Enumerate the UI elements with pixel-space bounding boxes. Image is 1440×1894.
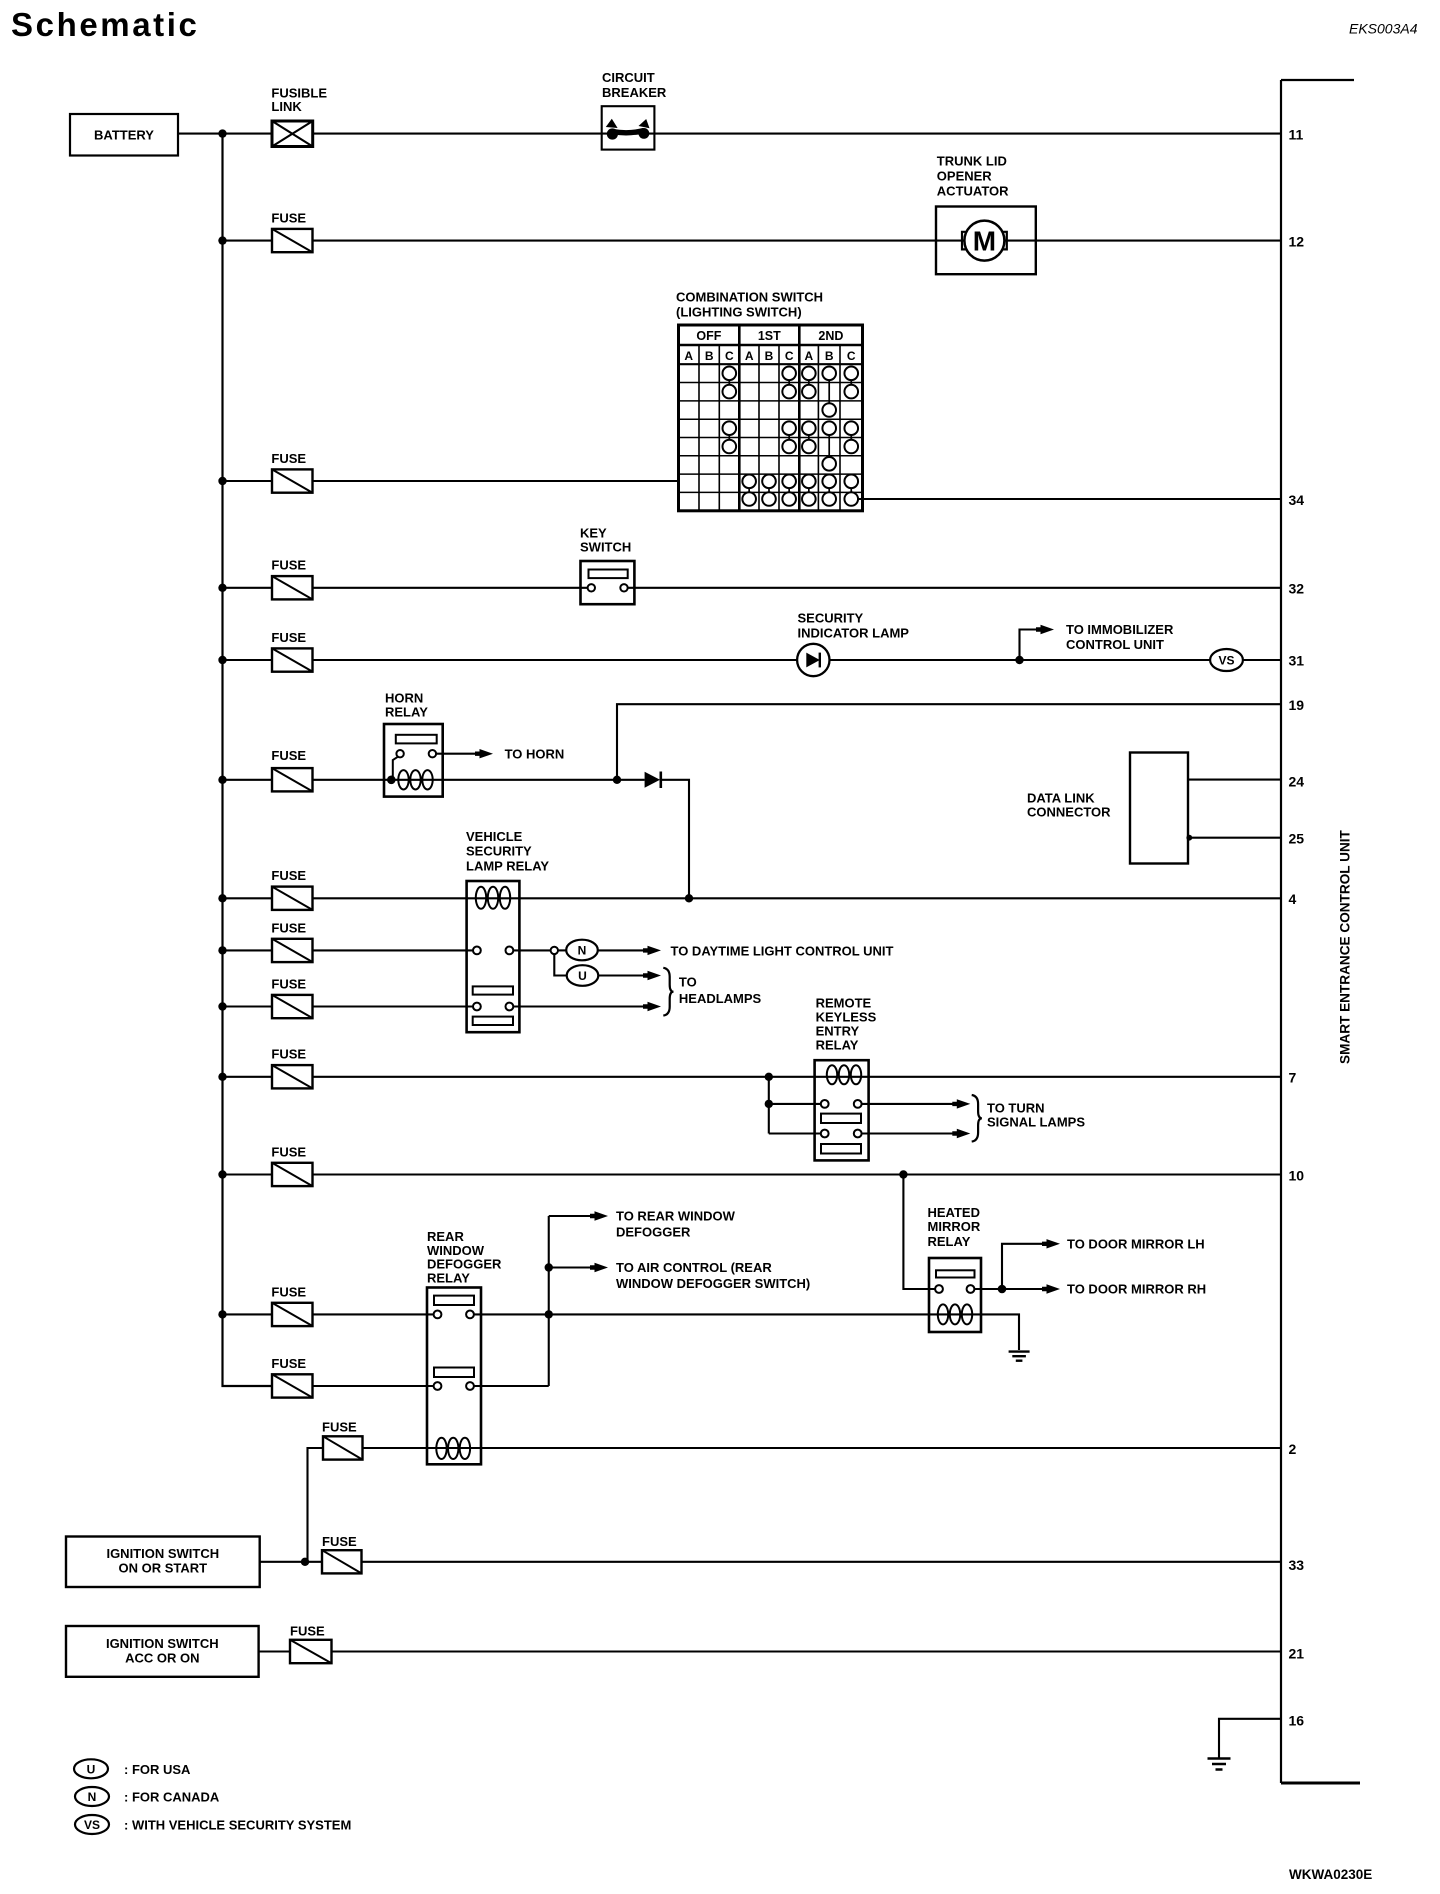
svg-text:FUSE: FUSE [271, 1356, 306, 1371]
table contact circles [723, 367, 737, 381]
table header separator 1 [679, 344, 863, 347]
junction door mirror split [998, 1285, 1007, 1294]
svg-text:DEFOGGER: DEFOGGER [427, 1257, 502, 1272]
wire corner to rear window defogger arrow [549, 1215, 595, 1217]
svg-text:EKS003A4: EKS003A4 [1349, 21, 1418, 37]
svg-text:TO HORN: TO HORN [505, 746, 565, 761]
wire battery row to pin 11 [223, 133, 1282, 135]
fuse F5 [272, 768, 313, 791]
wire VSL contact row 2 to arrow [513, 1005, 647, 1007]
N option ellipse [566, 940, 598, 961]
wire fuse row to RWD relay contact row 1 [223, 1313, 434, 1315]
fuse F8 [272, 995, 313, 1018]
wire to RKE contact row 1 [769, 1103, 821, 1105]
svg-text:ENTRY: ENTRY [816, 1024, 860, 1039]
svg-text:SIGNAL LAMPS: SIGNAL LAMPS [987, 1115, 1085, 1130]
svg-text:CONNECTOR: CONNECTOR [1027, 805, 1111, 820]
svg-text:TO: TO [679, 975, 697, 990]
svg-text:RELAY: RELAY [385, 705, 428, 720]
wire to door mirror LH arrow [1002, 1244, 1046, 1289]
wire diode to vertical drop [661, 780, 689, 899]
wire fuse row through VSL relay coil to pin 4 [223, 897, 1282, 899]
wire N to arrow [598, 949, 648, 951]
svg-text:CONTROL UNIT: CONTROL UNIT [1066, 637, 1164, 652]
svg-text:11: 11 [1289, 127, 1304, 143]
legend U ellipse [74, 1759, 108, 1778]
arrow to daytime light control unit [643, 946, 661, 955]
svg-text:HEADLAMPS: HEADLAMPS [679, 991, 762, 1006]
combination switch table outer border [679, 325, 863, 511]
svg-text:FUSE: FUSE [271, 558, 306, 573]
table header separator 2 [679, 363, 863, 365]
svg-text:BATTERY: BATTERY [94, 127, 154, 142]
svg-text:C: C [785, 349, 794, 363]
VSL relay coil [476, 887, 486, 909]
svg-text:IGNITION SWITCH: IGNITION SWITCH [106, 1546, 219, 1561]
table row lines [679, 382, 863, 384]
svg-text:19: 19 [1289, 697, 1305, 713]
RWD relay top slot [434, 1296, 474, 1305]
svg-text:1ST: 1ST [758, 329, 781, 343]
wire RWD contact row1 through HM coil to ground [474, 1314, 1019, 1350]
RKE relay slot 2 [821, 1144, 861, 1154]
wire ignition branch to fuse F13 [308, 1448, 324, 1562]
turn signal brace [972, 1095, 982, 1142]
svg-text:OPENER: OPENER [937, 169, 993, 184]
svg-text:FUSE: FUSE [271, 451, 306, 466]
svg-text:25: 25 [1289, 831, 1305, 847]
svg-text:BREAKER: BREAKER [602, 85, 667, 100]
svg-text:: FOR USA: : FOR USA [124, 1762, 191, 1777]
wire data link to pin 24 [1188, 779, 1281, 781]
svg-text:COMBINATION SWITCH: COMBINATION SWITCH [676, 290, 823, 305]
smart entrance control unit bus (right vertical line) [1280, 80, 1282, 1783]
wire key switch to pin 32 [628, 587, 1281, 589]
RWD relay box [427, 1288, 481, 1465]
svg-text:ON OR START: ON OR START [119, 1561, 208, 1576]
svg-text:TO DAYTIME LIGHT CONTROL UNIT: TO DAYTIME LIGHT CONTROL UNIT [671, 944, 894, 959]
key switch slot [589, 570, 628, 579]
key switch box [581, 561, 635, 604]
svg-text:33: 33 [1289, 1557, 1305, 1573]
svg-text:10: 10 [1289, 1168, 1305, 1184]
svg-text:C: C [847, 349, 856, 363]
svg-text:2: 2 [1289, 1441, 1297, 1457]
svg-text:U: U [578, 969, 587, 983]
svg-text:RELAY: RELAY [928, 1234, 971, 1249]
junction air control branch [545, 1263, 553, 1271]
svg-text:: FOR CANADA: : FOR CANADA [124, 1790, 220, 1805]
fusible link symbol [272, 121, 313, 147]
junction RKE branch [765, 1073, 773, 1081]
wire branch to immobilizer [1020, 630, 1041, 661]
RWD relay coil [436, 1438, 446, 1459]
svg-text:31: 31 [1289, 653, 1305, 669]
RKE relay contacts row 1 [821, 1100, 829, 1108]
fuse F7 [272, 939, 313, 962]
wire data link to pin 25 [1188, 837, 1281, 839]
svg-text:32: 32 [1289, 581, 1305, 597]
wire fuse row to VSL relay contact row 2 [223, 1005, 474, 1007]
svg-text:N: N [88, 1790, 97, 1804]
fuse F3 [272, 576, 313, 599]
circuit breaker box [602, 106, 655, 149]
svg-text:WINDOW DEFOGGER SWITCH): WINDOW DEFOGGER SWITCH) [616, 1276, 810, 1291]
junction at diode [613, 776, 621, 784]
wire heated mirror branch vertical [903, 1175, 935, 1290]
legend VS ellipse [75, 1815, 109, 1834]
svg-text:16: 16 [1289, 1713, 1305, 1729]
svg-text:FUSE: FUSE [271, 630, 306, 645]
wire HM contact to junction [974, 1288, 1002, 1290]
svg-text:RELAY: RELAY [816, 1038, 859, 1053]
svg-text:LAMP RELAY: LAMP RELAY [466, 859, 549, 874]
diode [645, 772, 660, 788]
svg-text:KEYLESS: KEYLESS [816, 1010, 877, 1025]
unit top edge [1281, 79, 1354, 81]
RWD relay contacts row 2 [434, 1382, 442, 1390]
svg-text:TO AIR CONTROL (REAR: TO AIR CONTROL (REAR [616, 1260, 772, 1275]
table group separator lines [738, 325, 741, 511]
svg-text:2ND: 2ND [818, 329, 843, 343]
horn relay coil [398, 770, 408, 789]
svg-text:C: C [725, 349, 734, 363]
svg-text:U: U [87, 1762, 96, 1776]
svg-text:M: M [973, 226, 996, 257]
wire horn relay branch to pin 19 [617, 704, 1281, 780]
battery box [70, 114, 178, 156]
wire fuse row to RWD relay contact row 2 [223, 1385, 434, 1387]
combination switch output wire to pin 34 [858, 498, 1281, 500]
table column lines [698, 345, 700, 511]
svg-text:VS: VS [84, 1818, 100, 1832]
junction [218, 776, 226, 784]
wire fuse row through horn relay to diode [223, 779, 645, 781]
VSL relay middle slot [473, 986, 513, 994]
motor M symbol [962, 232, 967, 250]
fuse F13 [323, 1436, 363, 1459]
horn relay contacts [396, 750, 403, 757]
svg-text:ACC OR ON: ACC OR ON [125, 1651, 199, 1666]
svg-text:REMOTE: REMOTE [816, 996, 872, 1011]
junction to immobilizer branch [1015, 656, 1023, 664]
svg-text:LINK: LINK [271, 99, 302, 114]
svg-text:A: A [745, 349, 754, 363]
svg-text:HEATED: HEATED [928, 1205, 980, 1220]
svg-text:TO REAR WINDOW: TO REAR WINDOW [616, 1209, 736, 1224]
svg-text:21: 21 [1289, 1646, 1305, 1662]
svg-text:SECURITY: SECURITY [798, 611, 864, 626]
arrow to headlamps lower [643, 1002, 661, 1011]
wire fuse row to pin 10 [223, 1173, 1282, 1175]
svg-text:FUSE: FUSE [322, 1534, 357, 1549]
wire VSL contact to junction circle [513, 949, 550, 951]
fuse F6 [272, 887, 313, 910]
svg-text:: WITH VEHICLE SECURITY SYSTEM: : WITH VEHICLE SECURITY SYSTEM [124, 1818, 351, 1833]
svg-text:INDICATOR LAMP: INDICATOR LAMP [798, 626, 910, 641]
svg-text:REAR: REAR [427, 1229, 464, 1244]
horn relay armature link [393, 757, 398, 780]
trunk lid opener actuator box [936, 207, 1036, 275]
arrow to door mirror RH [1042, 1284, 1060, 1293]
junction [218, 946, 226, 954]
wire RKE branch vertical [768, 1077, 770, 1134]
key switch contacts [588, 584, 595, 591]
svg-text:TRUNK LID: TRUNK LID [937, 154, 1007, 169]
unit bottom edge [1281, 1782, 1360, 1785]
svg-text:RELAY: RELAY [427, 1271, 470, 1286]
svg-text:34: 34 [1289, 492, 1305, 508]
wire ignition 1 to pin 33 [260, 1561, 1281, 1563]
VSL relay bottom slot [473, 1017, 513, 1025]
wire to N ellipse [558, 949, 567, 951]
horn relay coil junction [387, 776, 396, 785]
arrow to headlamps upper [643, 971, 661, 980]
ignition switch acc or on box [66, 1626, 259, 1677]
wire to RKE contact row 2 [769, 1132, 821, 1134]
svg-text:WKWA0230E: WKWA0230E [1289, 1867, 1372, 1882]
VSL relay contacts row 2 [473, 1003, 481, 1011]
U option ellipse [567, 965, 599, 986]
wire battery to bus [178, 133, 223, 135]
svg-text:FUSE: FUSE [271, 748, 306, 763]
svg-text:N: N [578, 944, 587, 958]
data link connector box [1130, 753, 1188, 864]
VSL relay contacts row 1 [473, 947, 481, 955]
RKE relay slot 1 [821, 1114, 861, 1123]
arrow to turn signal upper [952, 1099, 970, 1108]
headlamps brace [663, 968, 673, 1016]
svg-text:12: 12 [1289, 234, 1305, 250]
legend N ellipse [75, 1787, 109, 1806]
arrow to door mirror LH [1042, 1239, 1060, 1248]
junction circle N/U split [551, 947, 558, 954]
svg-text:B: B [765, 349, 774, 363]
junction [218, 584, 226, 592]
svg-text:FUSE: FUSE [290, 1624, 325, 1639]
svg-text:MIRROR: MIRROR [928, 1219, 981, 1234]
svg-text:IGNITION SWITCH: IGNITION SWITCH [106, 1636, 219, 1651]
svg-text:TO TURN: TO TURN [987, 1101, 1045, 1116]
HM relay contacts [935, 1285, 943, 1293]
fuse F12 [272, 1374, 313, 1397]
table contact connector lines [728, 373, 730, 391]
RWD relay middle slot [434, 1368, 474, 1378]
wire junction circle down to U [554, 954, 566, 975]
ground pin 16 [1208, 1757, 1231, 1760]
arrow to air control [590, 1263, 608, 1272]
RKE relay contacts row 2 [821, 1130, 829, 1138]
junction [218, 477, 226, 485]
fuse F2 [272, 469, 313, 492]
arrow to immobilizer [1036, 625, 1054, 634]
svg-text:FUSE: FUSE [271, 920, 306, 935]
ignition switch on or start box [66, 1537, 260, 1588]
svg-text:FUSE: FUSE [271, 868, 306, 883]
RWD relay contacts row 1 [434, 1311, 442, 1319]
fuse F1 [272, 229, 313, 252]
wire to door mirror RH arrow [1002, 1288, 1046, 1290]
wire pin 16 to ground [1219, 1719, 1281, 1759]
junction [218, 236, 226, 244]
wire fuse row to key switch [223, 587, 588, 589]
junction RKE contact row 1 [765, 1100, 773, 1108]
svg-text:FUSE: FUSE [322, 1420, 357, 1435]
fuse F9 [272, 1065, 313, 1088]
horn relay box [384, 724, 443, 797]
fuse F4 [272, 648, 313, 671]
svg-text:TO IMMOBILIZER: TO IMMOBILIZER [1066, 622, 1174, 637]
svg-text:24: 24 [1289, 774, 1305, 790]
svg-text:FUSE: FUSE [271, 210, 306, 225]
svg-text:Schematic: Schematic [11, 6, 199, 43]
fuse F14 [322, 1550, 362, 1573]
RKE relay box [815, 1060, 869, 1160]
HM relay slot [936, 1270, 975, 1277]
arrow to horn [475, 749, 493, 758]
ground heated mirror [1009, 1350, 1030, 1352]
svg-text:KEY: KEY [580, 526, 607, 541]
svg-text:(LIGHTING SWITCH): (LIGHTING SWITCH) [676, 305, 802, 320]
svg-text:CIRCUIT: CIRCUIT [602, 70, 655, 85]
junction defogger branch [545, 1310, 553, 1318]
wire ignition 2 to pin 21 [259, 1650, 1281, 1652]
junction [218, 1310, 226, 1318]
junction data link pin 25 [1186, 835, 1192, 841]
wire fuse row to pin 12 [223, 240, 1282, 242]
svg-text:FUSE: FUSE [271, 1047, 306, 1062]
junction ignition branch [301, 1558, 309, 1566]
junction heated mirror branch [899, 1170, 907, 1178]
wire RKE contact 2 to arrow [862, 1132, 954, 1134]
fuse F10 [272, 1163, 313, 1186]
svg-text:B: B [705, 349, 714, 363]
horn relay slot [396, 735, 437, 744]
svg-text:ACTUATOR: ACTUATOR [937, 184, 1009, 199]
junction [218, 894, 226, 902]
wire fuse F13 through RWD coil to pin 2 [363, 1447, 1282, 1449]
svg-text:7: 7 [1289, 1070, 1297, 1086]
svg-text:SMART ENTRANCE CONTROL UNIT: SMART ENTRANCE CONTROL UNIT [1338, 829, 1353, 1064]
svg-text:DEFOGGER: DEFOGGER [616, 1225, 691, 1240]
HM relay coil [938, 1304, 948, 1324]
junction [218, 1073, 226, 1081]
svg-text:VS: VS [1218, 654, 1234, 668]
svg-text:FUSE: FUSE [271, 976, 306, 991]
wire to horn [436, 753, 479, 755]
wire fuse row to VSL relay contact [223, 949, 474, 951]
svg-text:DATA LINK: DATA LINK [1027, 791, 1095, 806]
wire fuse row through RKE relay coil to pin 7 [223, 1076, 1282, 1078]
wire RWD contact row2 up to defogger branch [474, 1385, 549, 1387]
fuse F11 [272, 1303, 313, 1326]
svg-text:SECURITY: SECURITY [466, 844, 532, 859]
circuit breaker element [607, 128, 618, 139]
wire to air control arrow [549, 1266, 595, 1268]
svg-text:FUSE: FUSE [271, 1284, 306, 1299]
battery feed bus (left vertical line) turning right at bottom to fuse row [223, 134, 273, 1386]
svg-text:HORN: HORN [385, 691, 423, 706]
svg-text:TO DOOR MIRROR LH: TO DOOR MIRROR LH [1067, 1236, 1205, 1251]
svg-text:SWITCH: SWITCH [580, 540, 631, 555]
arrow to rear window defogger [590, 1211, 608, 1220]
svg-text:4: 4 [1289, 891, 1297, 907]
junction [218, 656, 226, 664]
junction diode branch meets pin 4 wire [685, 894, 693, 902]
fuse F15 [290, 1640, 332, 1663]
svg-text:A: A [805, 349, 814, 363]
svg-text:B: B [825, 349, 834, 363]
junction [218, 129, 226, 137]
svg-text:FUSE: FUSE [271, 1144, 306, 1159]
defogger branch vertical wire [548, 1216, 550, 1386]
security indicator lamp symbol [797, 644, 829, 676]
svg-text:A: A [684, 349, 693, 363]
svg-text:TO DOOR MIRROR RH: TO DOOR MIRROR RH [1067, 1281, 1206, 1296]
svg-text:OFF: OFF [696, 329, 721, 343]
wire fuse row to combination switch [223, 480, 679, 482]
arrow to turn signal lower [952, 1129, 970, 1138]
RKE relay coil [827, 1065, 837, 1084]
VS option ellipse [1210, 649, 1243, 671]
wire fuse row to pin 31 [223, 659, 1211, 661]
heated mirror relay box [929, 1258, 981, 1332]
wire U to arrow [598, 974, 647, 976]
wire RKE contact 1 to arrow [862, 1103, 954, 1105]
svg-text:VEHICLE: VEHICLE [466, 829, 523, 844]
vehicle security lamp relay box [467, 881, 520, 1032]
junction [218, 1170, 226, 1178]
junction [218, 1002, 226, 1010]
